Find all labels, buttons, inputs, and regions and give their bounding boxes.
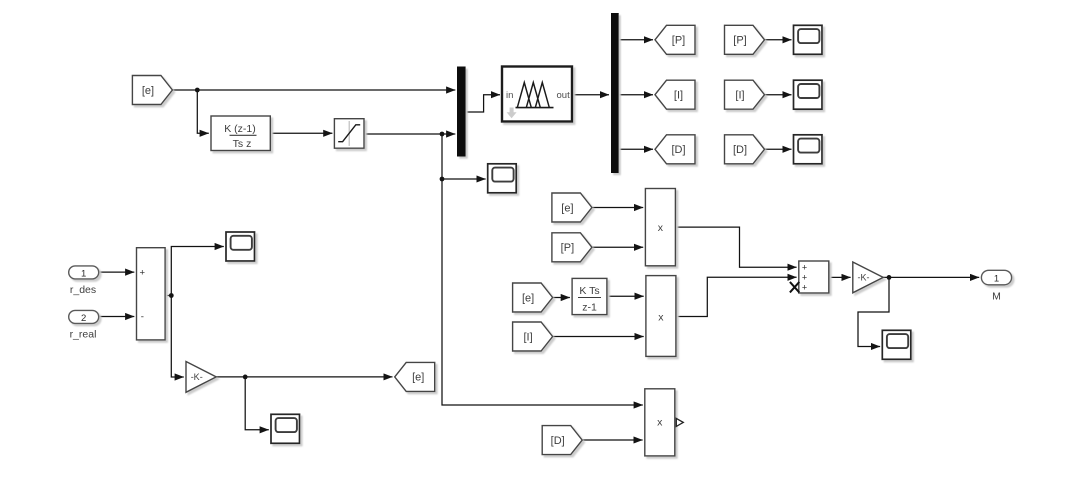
scope S3 [794, 135, 823, 164]
svg-text:[I]: [I] [674, 90, 683, 102]
sum block Sum1 [137, 248, 166, 340]
svg-text:[e]: [e] [561, 202, 573, 214]
svg-text:+: + [802, 263, 807, 273]
svg-text:[I]: [I] [524, 331, 533, 343]
scope S7 [882, 330, 911, 359]
svg-text:[D]: [D] [733, 144, 747, 156]
goto tag [P] [655, 25, 695, 54]
svg-text:[P]: [P] [672, 35, 685, 47]
svg-text:out: out [557, 90, 571, 101]
wire Sum1 trunk down to Gain1 [171, 296, 184, 378]
svg-text:1: 1 [81, 268, 86, 279]
wire From[D] to scope S3 [765, 148, 792, 150]
svg-text:x: x [658, 311, 664, 323]
from tag [I] to Product2 [513, 322, 553, 351]
inport 2 r_real [69, 310, 99, 323]
junction node after saturation [440, 132, 445, 137]
product block P3 [645, 389, 675, 456]
wire Sum1 output trunk [165, 247, 224, 296]
wire branch down to derivative block [197, 90, 209, 133]
wire Demux output 3 to Goto [D] [619, 148, 653, 150]
wire fuzzy out to Demux [572, 94, 609, 96]
svg-text:-K-: -K- [858, 273, 870, 283]
wire From[D] to Product3 input 2 [583, 439, 643, 441]
svg-text:in: in [506, 90, 513, 101]
from tag [D] to Product3 [542, 426, 582, 455]
wire Demux output 2 to Goto [I] [619, 94, 653, 96]
discrete integrator block KTs/z-1 [572, 278, 607, 314]
gain block Gain1 -K- [186, 362, 216, 393]
junction node on [e] wire [195, 88, 200, 93]
junction node after Gain1 [243, 375, 248, 380]
demux [611, 13, 619, 173]
wire From[P] to scope S1 [765, 39, 792, 41]
outport M [981, 270, 1011, 285]
wire From[e] to Product1 input 1 [592, 207, 643, 209]
unconnected output arrow on Product3 [676, 418, 683, 426]
from tag [I] right column [725, 80, 765, 109]
svg-text:[D]: [D] [671, 144, 685, 156]
from tag [P] right column [725, 25, 765, 54]
wire long vertical from saturation branch [442, 134, 643, 405]
scope S6 [271, 414, 300, 443]
wire branch to scope S4 [442, 178, 486, 180]
svg-text:-: - [141, 312, 144, 323]
wire From[e] to Mux input 1 [172, 89, 455, 91]
svg-text:x: x [658, 222, 664, 234]
svg-text:Ts z: Ts z [233, 138, 252, 150]
from tag [P] to Product1 [552, 233, 592, 262]
svg-text:z-1: z-1 [582, 302, 597, 314]
discrete derivative block K(z-1)/Tsz [211, 116, 270, 151]
mux [457, 67, 466, 157]
goto tag [D] [655, 135, 695, 164]
svg-text:[e]: [e] [412, 372, 424, 384]
wire From[I] to scope S2 [765, 94, 792, 96]
wire branch Gain2 to scope S7 [858, 277, 889, 346]
svg-text:[P]: [P] [733, 35, 746, 47]
scope S2 [794, 80, 823, 109]
svg-text:+: + [802, 283, 807, 293]
wire saturation to Mux input 2 [364, 133, 455, 135]
svg-text:r_real: r_real [70, 328, 97, 340]
junction node at Sum1 output [169, 293, 174, 298]
svg-text:[P]: [P] [561, 242, 574, 254]
svg-text:+: + [140, 268, 146, 279]
wire Product2 output to Sum2 input 2 [676, 277, 797, 316]
wire Mux output to fuzzy in [466, 95, 500, 112]
product block P2 [646, 276, 676, 357]
svg-text:2: 2 [81, 313, 86, 324]
scope S5 [226, 232, 255, 261]
junction node at scope S4 branch [440, 177, 445, 182]
wire Product1 output to Sum2 input 1 [675, 227, 796, 267]
svg-text:K Ts: K Ts [579, 285, 599, 297]
scope S4 middle [488, 164, 517, 193]
wire From[e] to integrator block [552, 297, 570, 299]
svg-text:-K-: -K- [191, 372, 203, 382]
wire Inport2 to Sum1 minus [99, 316, 135, 318]
goto tag [I] [655, 80, 695, 109]
junction node after Gain2 [887, 275, 892, 280]
svg-text:r_des: r_des [70, 284, 96, 296]
svg-text:[e]: [e] [522, 292, 534, 304]
wire From[P] to Product1 input 2 [592, 246, 643, 248]
svg-text:+: + [802, 273, 807, 283]
wire From[I] to Product2 input 2 [552, 336, 644, 338]
svg-text:[e]: [e] [142, 85, 154, 97]
From tag [e] top-left [132, 76, 172, 105]
inport 1 r_des [69, 266, 99, 279]
wire derivative to saturation [270, 132, 332, 134]
wire Gain2 to Outport M [883, 276, 979, 278]
svg-text:K (z-1): K (z-1) [224, 123, 256, 135]
svg-text:x: x [657, 417, 663, 429]
fuzzy logic controller block [502, 67, 572, 122]
wire Inport1 to Sum1 plus [99, 271, 135, 273]
unconnected input X mark on Sum2 [790, 282, 799, 293]
goto tag [e] [395, 362, 435, 391]
scope S1 [794, 25, 823, 54]
svg-text:[I]: [I] [735, 90, 744, 102]
from tag [e] to Product1 [552, 193, 592, 222]
wire branch to scope S6 [245, 377, 269, 430]
product block P1 [645, 189, 675, 266]
saturation block [334, 119, 364, 149]
sum block Sum2 [799, 261, 829, 293]
from tag [D] right column [725, 135, 765, 164]
from tag [e] to integrator [513, 283, 553, 312]
svg-text:M: M [992, 291, 1001, 303]
svg-text:[D]: [D] [551, 435, 565, 447]
svg-text:1: 1 [994, 273, 999, 284]
gain block Gain2 -K- [853, 262, 883, 293]
wire Demux output 1 to Goto [P] [619, 39, 653, 41]
wire Gain1 to Goto [e] [216, 376, 392, 378]
wire integrator to Product2 input 1 [607, 295, 644, 297]
wire Sum2 to Gain2 [829, 276, 851, 278]
